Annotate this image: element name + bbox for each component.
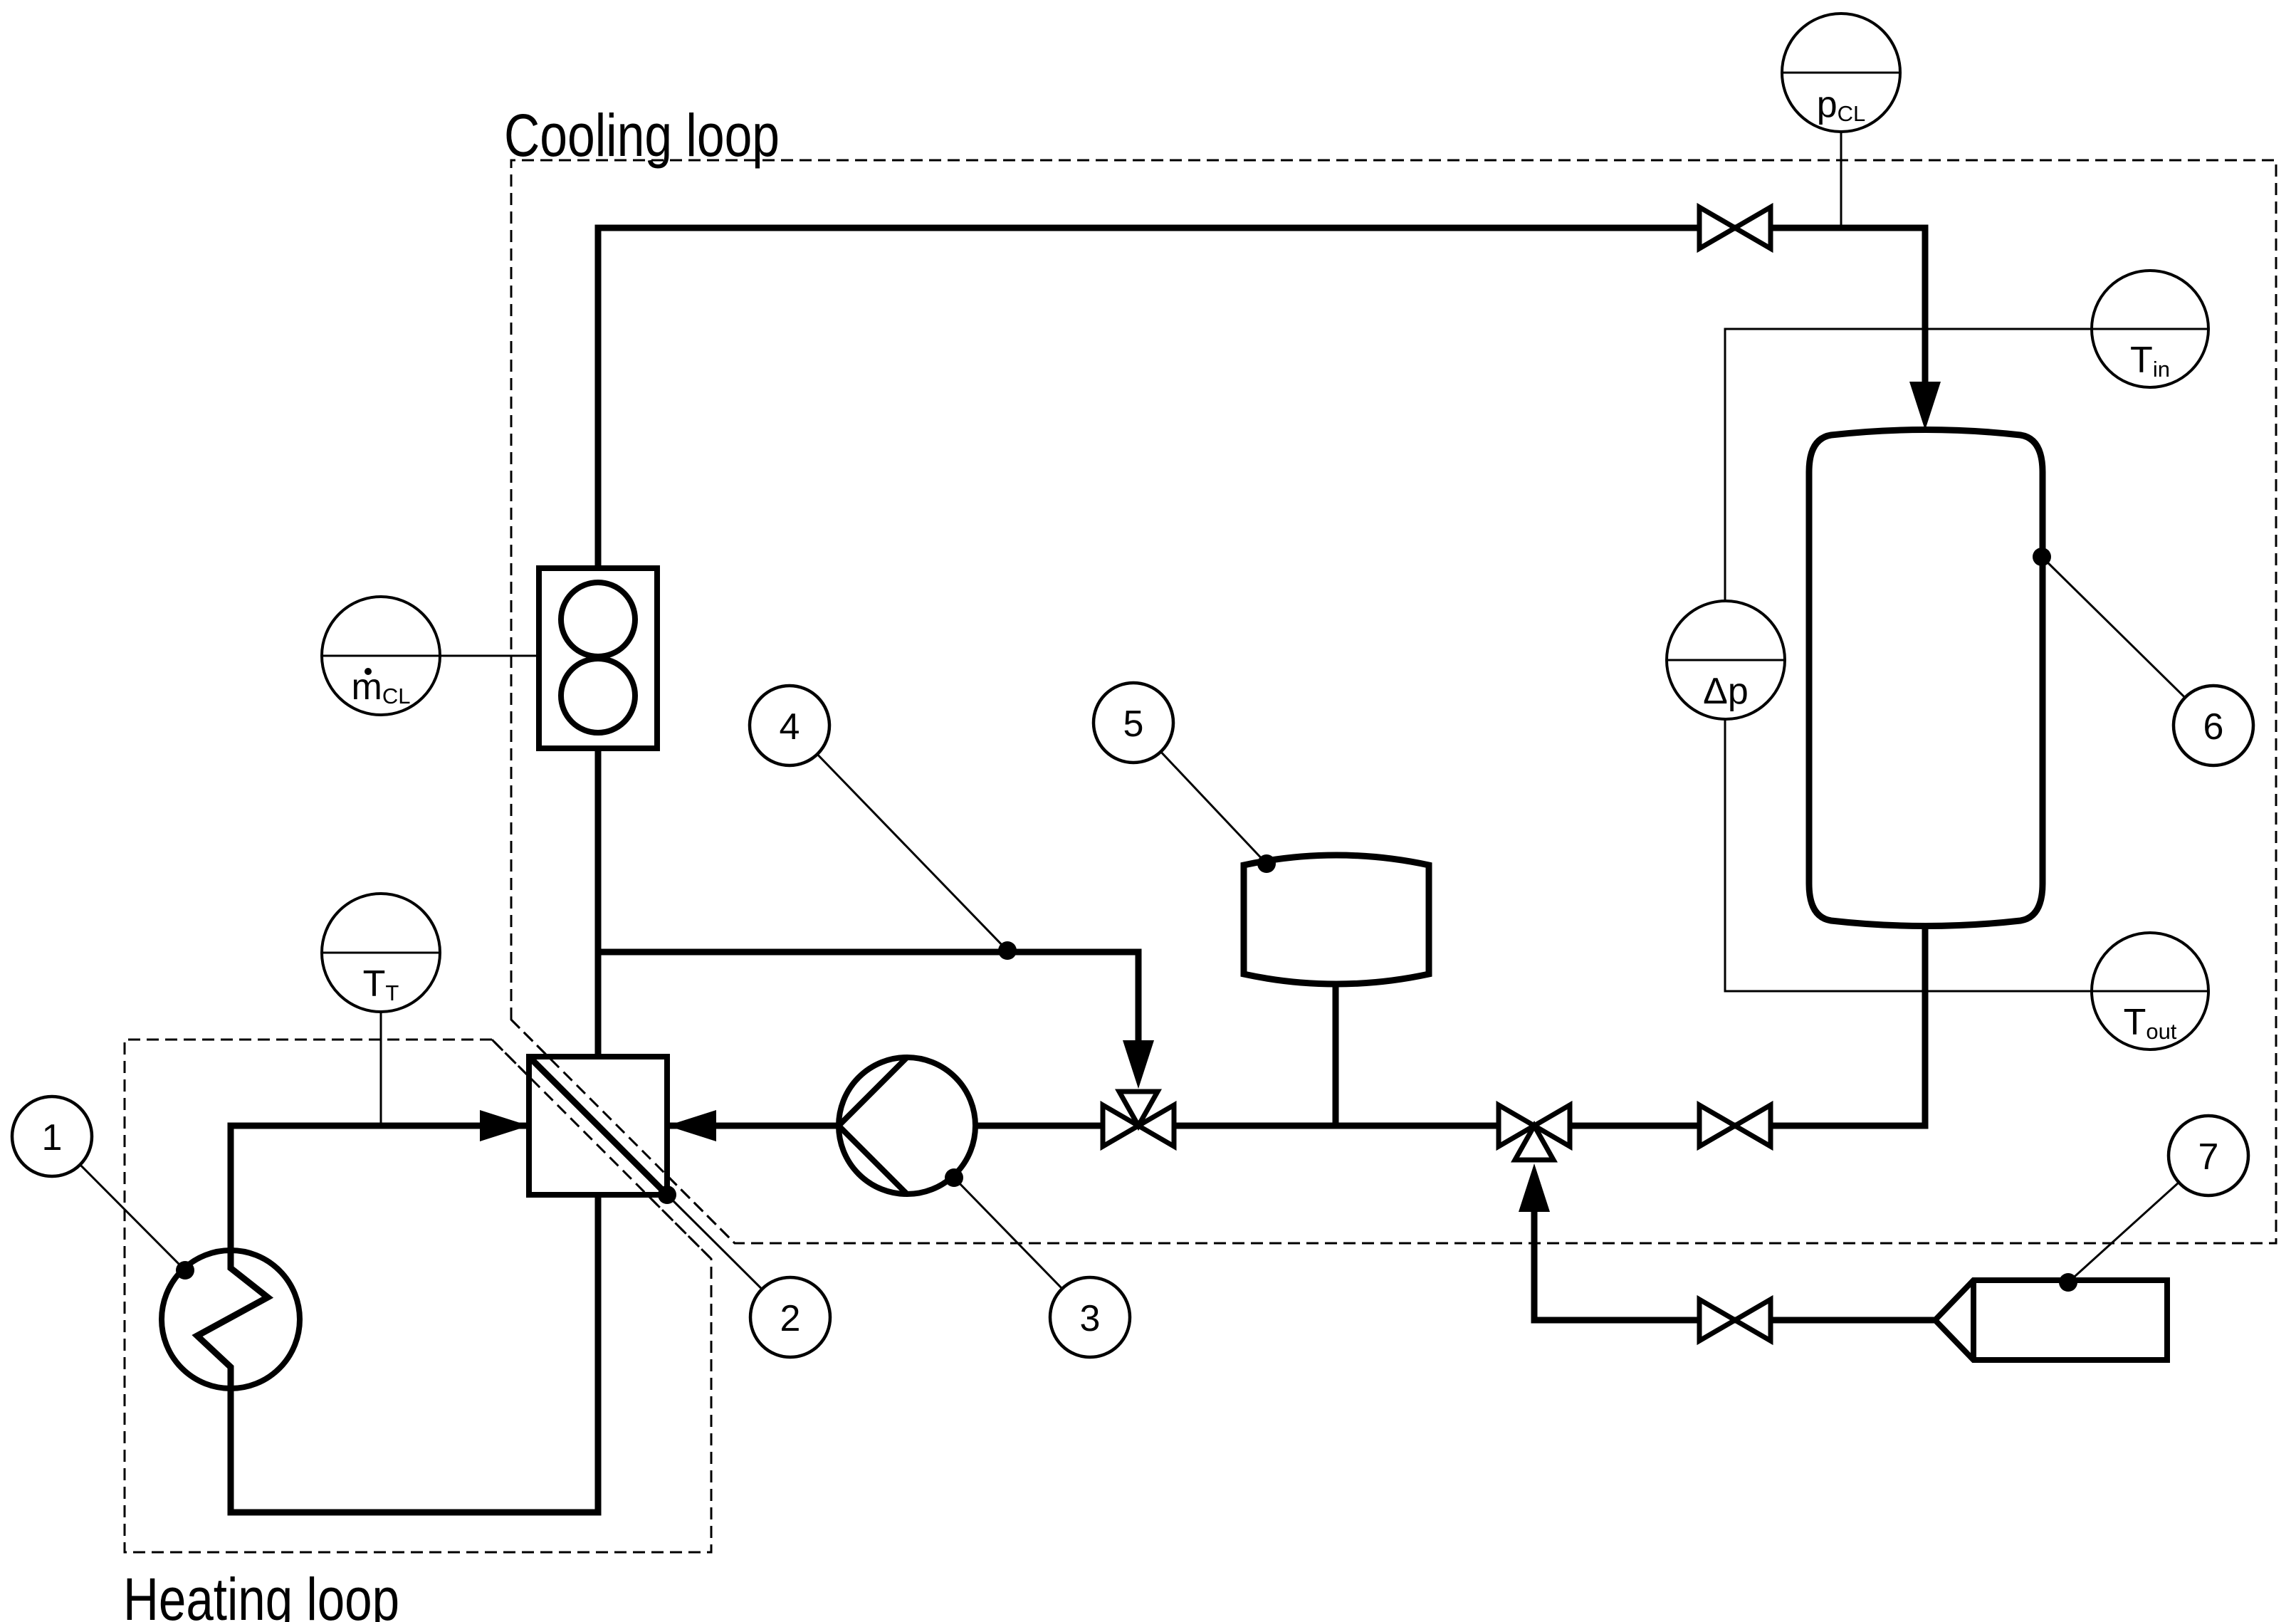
node dot on heat exchanger corner (658, 1186, 676, 1204)
sensing line pCL (1840, 132, 1842, 228)
heat exchanger diagonal (529, 1057, 667, 1195)
pointer line 6 (2042, 557, 2213, 726)
svg-text:3: 3 (1080, 1298, 1101, 1339)
pump impeller chords (839, 1057, 907, 1194)
cooling boundary diagonal through heat exchanger (511, 1020, 735, 1243)
node dot on expansion tank (1257, 854, 1276, 873)
svg-text:2: 2 (780, 1298, 801, 1339)
valve on nitrogen line (1699, 1299, 1771, 1341)
wire: cooling pipe flowmeter to heat exchanger (595, 748, 602, 1057)
expansion tank (1244, 855, 1429, 984)
wire: heating loop bottom leg (231, 1195, 598, 1512)
heating loop dashed boundary (125, 1040, 711, 1552)
sensing lines Tin / dp / Tout (1725, 329, 2092, 991)
flow arrow into heat exchanger left (480, 1110, 529, 1141)
pointer line 5 (1133, 723, 1267, 864)
node dot on heater (176, 1261, 194, 1280)
label circle 3 (1050, 1277, 1130, 1357)
pointer line 2 (667, 1195, 790, 1317)
label circle 6 (2174, 686, 2253, 765)
valve on top cooling pipe (1699, 207, 1771, 248)
instrument Tout (2092, 933, 2208, 1050)
wire: bypass line to three-way valve (598, 952, 1138, 1052)
heater circle (162, 1250, 300, 1388)
flow arrow into vessel (1909, 382, 1941, 430)
heater element zigzag (197, 1250, 268, 1388)
valve on main return pipe (1699, 1105, 1771, 1146)
node dot on pump (945, 1168, 963, 1187)
flow meter body (539, 568, 657, 748)
wire: nitrogen supply line (1534, 1210, 1938, 1320)
sensing line mCL (440, 655, 539, 657)
wire: top cooling pipe with vessel inlet drop (598, 228, 1925, 568)
svg-text:5: 5 (1123, 703, 1144, 745)
pointer line 7 (2068, 1156, 2208, 1282)
pointer line 3 (954, 1178, 1090, 1317)
heat exchanger square (529, 1057, 667, 1195)
label circle 2 (750, 1277, 830, 1357)
instrument Tin (2092, 271, 2208, 387)
instrument dp (1667, 601, 1785, 719)
three-way control valve (bypass) (1103, 1105, 1174, 1146)
nitrogen bottle neck line (1971, 1280, 1976, 1360)
pump circle (839, 1057, 975, 1194)
node dot on nitrogen bottle (2059, 1273, 2077, 1292)
test section vessel (1809, 430, 2043, 926)
node dot on bypass line (998, 941, 1017, 960)
svg-text:7: 7 (2198, 1136, 2219, 1178)
flow arrow into heat exchanger right (667, 1110, 716, 1141)
svg-text:6: 6 (2203, 706, 2224, 748)
label circle 4 (750, 686, 829, 765)
wire: main cooling return pipe (667, 922, 1925, 1126)
svg-text:1: 1 (42, 1117, 63, 1158)
actuator arrow onto bypass valve (1123, 1040, 1154, 1089)
three-way valve (nitrogen inlet) (1499, 1105, 1570, 1146)
svg-text:Heating loop: Heating loop (123, 1566, 399, 1622)
instrument mCL (322, 597, 440, 715)
label circle 7 (2169, 1116, 2248, 1195)
flow meter lower circle (561, 659, 635, 733)
heating boundary diagonal through heat exchanger (492, 1040, 711, 1259)
nitrogen bottle (1935, 1280, 2167, 1360)
label circle 5 (1094, 683, 1173, 763)
pointer line 4 (790, 726, 1007, 951)
svg-text:Δp: Δp (1703, 671, 1749, 712)
instrument pCL (1782, 14, 1900, 132)
label circle 1 (12, 1097, 92, 1176)
instrument TT (322, 894, 440, 1012)
node dot on vessel (2033, 548, 2051, 566)
svg-text:4: 4 (780, 706, 800, 748)
flow meter upper circle (561, 582, 635, 656)
cooling loop dashed boundary (511, 160, 2276, 1243)
wire: heating loop left leg (231, 1126, 529, 1251)
actuator arrow onto nitrogen valve (1519, 1163, 1550, 1212)
wire: expansion tank stem (1333, 985, 1339, 1126)
sensing line TT (380, 1012, 382, 1126)
pointer line 1 (52, 1136, 185, 1270)
svg-text:Cooling loop: Cooling loop (504, 102, 780, 169)
